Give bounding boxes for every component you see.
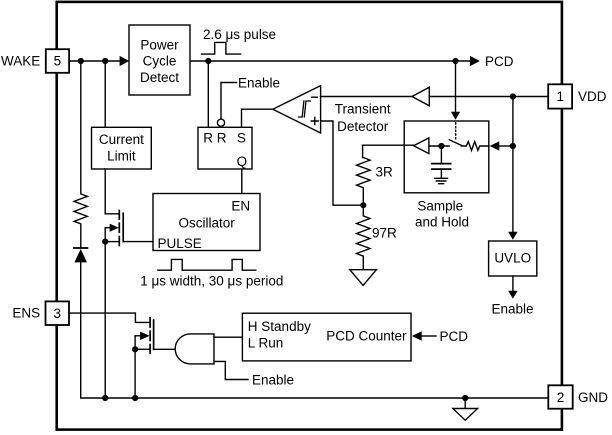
svg-text:Enable: Enable (252, 372, 294, 387)
buffer U5 (hold buffer) (414, 138, 429, 154)
svg-text:UVLO: UVLO (494, 250, 531, 265)
node junction on WAKE wire (current limit branch) (102, 58, 108, 64)
svg-text:1: 1 (556, 89, 564, 104)
wire Q1 source rail to ground rail (104, 228, 106, 398)
Power Cycle Detect block U1 (129, 25, 190, 95)
svg-text:Detector: Detector (337, 119, 389, 134)
AND gate U6 (175, 334, 214, 364)
wire PCD stub (422, 335, 436, 337)
wire WAKE pin to Power Cycle Detect (69, 60, 120, 62)
arrow UVLO enable (508, 291, 517, 299)
node junction VDD rail at S+H (510, 143, 516, 149)
capacitor C1 hold (440, 146, 442, 163)
wire Enable to latch R2 (221, 83, 237, 119)
ground (divider) (350, 270, 377, 286)
arrow sample control into S+H (451, 112, 460, 120)
node junction ground rail Q2 (132, 395, 138, 401)
minus input mark (312, 96, 317, 98)
node Q1 source junction (102, 239, 108, 245)
arrow into UVLO (508, 232, 517, 240)
wire Q2 source rail to ground rail (134, 336, 136, 398)
wire hold buffer output to divider top (363, 145, 414, 157)
node divider tap junction (360, 202, 366, 208)
op-amp U3 Schmitt transient comparator (273, 86, 321, 133)
svg-text:Sample: Sample (417, 198, 463, 213)
node junction ground rail at GND symbol (462, 395, 468, 401)
inverter bubble on latch R2 (217, 119, 224, 126)
wire VDD rail down to UVLO (512, 97, 514, 232)
pin 2 GND (548, 385, 572, 408)
SR latch U2 (198, 127, 252, 169)
svg-text:1 μs width, 30 μs period: 1 μs width, 30 μs period (140, 273, 283, 288)
hysteresis symbol (299, 101, 311, 117)
svg-text:L Run: L Run (248, 335, 284, 350)
wire current limit feed (104, 61, 106, 127)
wire oscillator PULSE to Q1 gate (123, 241, 153, 243)
svg-text:Q: Q (237, 154, 248, 169)
svg-text:EN: EN (231, 199, 250, 214)
resistor 3R (357, 158, 370, 206)
svg-text:3R: 3R (376, 164, 394, 179)
wire Schmitt plus input to divider tap (321, 121, 364, 205)
transistor Q2 (149, 318, 151, 353)
Sample and Hold block (404, 121, 489, 193)
svg-text:Limit: Limit (107, 148, 136, 163)
node junction on WAKE wire (resistor branch) (78, 58, 84, 64)
node junction ground rail Q1 (102, 395, 108, 401)
svg-text:2.6 μs pulse: 2.6 μs pulse (203, 27, 276, 42)
PCD Counter block (242, 313, 411, 361)
resistor (WAKE clamp) (74, 61, 87, 247)
svg-text:PCD Counter: PCD Counter (326, 329, 407, 344)
plus input mark (311, 118, 318, 125)
wire ENS to Q2 drain (69, 313, 149, 322)
svg-text:Transient: Transient (335, 101, 391, 116)
dashed switch control (455, 123, 457, 140)
resistor 97R (357, 205, 370, 270)
svg-text:S: S (237, 131, 246, 146)
svg-text:Power: Power (140, 37, 179, 52)
wire PCD output net (190, 60, 470, 62)
wire latch R input from PCD (207, 61, 209, 127)
wire sample control drop (455, 61, 457, 112)
node hold cap junction (438, 143, 444, 149)
wire AND input A to counter block (214, 336, 242, 338)
wire UVLO enable out (512, 276, 514, 291)
ground (substrate) (464, 398, 466, 409)
svg-text:Current: Current (99, 132, 144, 147)
svg-text:2: 2 (557, 390, 565, 405)
svg-text:Oscillator: Oscillator (178, 216, 235, 231)
svg-text:R R: R R (203, 131, 227, 146)
svg-text:PCD: PCD (485, 54, 514, 69)
svg-text:ENS: ENS (12, 306, 40, 321)
svg-text:5: 5 (54, 54, 62, 69)
pin 5 WAKE (46, 49, 69, 73)
diode D1 (74, 247, 87, 249)
wire Schmitt minus input to buffer output (321, 96, 412, 98)
svg-text:VDD: VDD (578, 89, 607, 104)
wire AND input B to Enable (214, 361, 248, 379)
arrow PCD into counter (412, 331, 422, 340)
svg-text:GND: GND (578, 390, 608, 405)
svg-text:PCD: PCD (440, 329, 469, 344)
svg-text:Detect: Detect (140, 70, 179, 85)
svg-text:PULSE: PULSE (158, 236, 202, 251)
svg-text:WAKE: WAKE (1, 54, 40, 69)
wire AND output to Q2 gate (154, 348, 177, 350)
arrow PCD output (470, 56, 480, 66)
pin 1 VDD (548, 84, 572, 108)
node junction VDD rail (510, 93, 516, 99)
wire diode to ground rail (81, 262, 549, 398)
wire latch Q to oscillator EN (241, 169, 243, 194)
buffer U4 (VDD sense) (412, 87, 429, 106)
node junction PCD to sample control (452, 58, 458, 64)
svg-text:and Hold: and Hold (415, 214, 469, 229)
pin 3 ENS (46, 301, 70, 325)
ground (hold cap) (435, 178, 448, 183)
2.6 us pulse waveform (202, 42, 241, 54)
wire buffer input to VDD (429, 96, 548, 98)
resistor (switch series) (461, 142, 489, 151)
node junction PCD to latch R (205, 58, 211, 64)
wire buffer to switch contact (429, 145, 449, 147)
svg-text:97R: 97R (372, 226, 397, 241)
transistor Q1 (105, 169, 118, 214)
svg-text:Enable: Enable (238, 75, 280, 90)
svg-text:Enable: Enable (491, 302, 533, 317)
arrow into Power Cycle Detect (120, 56, 130, 66)
wire VDD rail to S+H arrow (499, 145, 513, 147)
svg-text:H Standby: H Standby (248, 319, 311, 334)
switch SW1 blade (449, 140, 461, 146)
svg-text:Cycle: Cycle (143, 54, 177, 69)
Oscillator block (153, 194, 260, 251)
wire Schmitt output to latch S (242, 109, 274, 127)
node Q2 source junction (132, 346, 138, 352)
svg-text:3: 3 (53, 306, 61, 321)
arrow VDD into S+H (490, 141, 500, 150)
Current Limit block (92, 127, 152, 169)
oscillator waveform (158, 259, 256, 270)
UVLO block (489, 241, 537, 276)
